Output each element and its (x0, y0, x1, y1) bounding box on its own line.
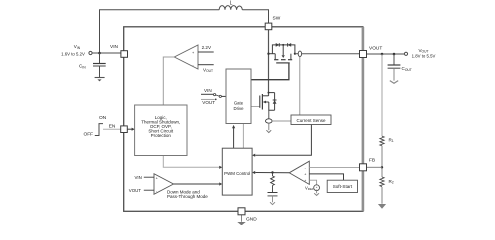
svg-text:SW: SW (273, 16, 281, 22)
svg-text:R2: R2 (389, 179, 394, 185)
svg-text:VOUT: VOUT (202, 100, 215, 105)
svg-text:EN: EN (109, 123, 116, 129)
svg-text:Drive: Drive (233, 106, 244, 111)
svg-text:VIN: VIN (204, 88, 212, 93)
svg-text:VOUT: VOUT (203, 67, 213, 73)
svg-text:OFF: OFF (84, 131, 94, 137)
svg-text:1.6V to 5.2V: 1.6V to 5.2V (61, 51, 85, 56)
svg-text:VOUT: VOUT (129, 188, 142, 193)
svg-text:Protection: Protection (151, 133, 172, 138)
svg-text:ON: ON (99, 115, 107, 121)
svg-text:FB: FB (369, 158, 375, 164)
svg-text:L: L (230, 0, 233, 6)
svg-text:Soft-Start: Soft-Start (333, 184, 353, 189)
svg-text:Pass-Through Mode: Pass-Through Mode (167, 194, 208, 199)
svg-text:GND: GND (246, 217, 257, 223)
svg-text:VOUT: VOUT (369, 46, 382, 52)
svg-text:CIN: CIN (79, 64, 86, 70)
svg-text:VREF: VREF (305, 185, 314, 191)
svg-text:VIN: VIN (74, 44, 81, 50)
svg-text:2.2V: 2.2V (202, 45, 212, 50)
svg-text:PWM Control: PWM Control (224, 171, 250, 176)
svg-text:COUT: COUT (402, 66, 412, 72)
svg-text:Current Sense: Current Sense (296, 118, 326, 123)
svg-text:+: + (304, 179, 306, 183)
svg-text:VIN: VIN (110, 44, 119, 50)
svg-text:R1: R1 (389, 137, 394, 143)
svg-text:1.8V to 5.5V: 1.8V to 5.5V (412, 54, 436, 59)
svg-text:+: + (304, 173, 306, 177)
svg-text:Gate: Gate (234, 101, 244, 106)
svg-text:VIN: VIN (135, 175, 142, 180)
